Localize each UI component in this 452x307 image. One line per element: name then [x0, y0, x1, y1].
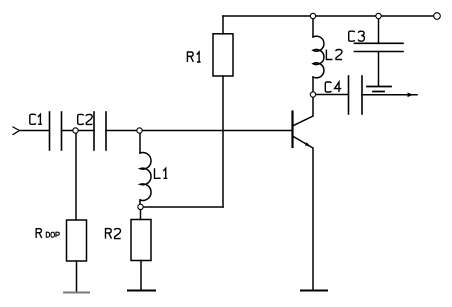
wire node3 down to R2: [140, 207, 142, 220]
inductor L2: [313, 36, 324, 78]
label R1: [187, 52, 193, 62]
input terminal chevron: [13, 127, 20, 135]
capacitor C3: [355, 43, 404, 51]
ground Rdop: [64, 292, 89, 294]
label C1: [30, 114, 36, 124]
label L2: [326, 50, 332, 60]
label Rdop: [36, 229, 42, 238]
output arrowhead: [408, 93, 414, 98]
ground C3: [367, 87, 391, 92]
label L1: [155, 168, 161, 178]
capacitor C1: [50, 112, 62, 150]
wire L2 to node4: [312, 77, 314, 95]
node F (L2-C4-collector junction): [310, 92, 315, 97]
node A (C1-C2 junction): [73, 128, 78, 133]
wire node3 to R1 bottom: [140, 206, 223, 208]
node D (rail-L2 junction): [310, 13, 315, 18]
capacitor C2: [94, 112, 106, 150]
label R2: [106, 229, 112, 239]
transistor VT1 collector: [293, 97, 314, 127]
wire R1 bottom down to node3 row: [222, 76, 224, 207]
ground R2: [128, 290, 155, 292]
top rail wire: [223, 15, 434, 17]
label C2: [78, 114, 84, 124]
wire rail down to L2: [312, 16, 314, 37]
ground emitter: [301, 290, 327, 292]
wire C3 to ground: [378, 52, 380, 87]
resistor R2: [131, 220, 151, 261]
node B (C2-L1 junction): [137, 128, 142, 133]
wire rail down to C3: [378, 16, 380, 43]
wire R1 top to rail: [222, 16, 224, 34]
transistor VT1 emitter arrowhead: [305, 142, 311, 147]
terminal (rail right end): [434, 13, 441, 20]
wire node2 down to L1: [139, 131, 141, 154]
wire L1 to node3: [139, 200, 141, 205]
wire C1 to C2: [62, 130, 95, 132]
capacitor C4: [349, 76, 363, 114]
wire Rdop to ground: [76, 261, 78, 292]
node E (rail-C3 junction): [376, 13, 381, 18]
wire R2 to ground: [140, 261, 142, 291]
wire node4 to C4: [313, 94, 349, 96]
label C4: [325, 82, 331, 92]
wire node1 down to Rdop: [75, 131, 77, 221]
transistor VT1 base bar: [291, 112, 293, 148]
inductor L1: [140, 153, 151, 201]
transistor VT1 emitter: [293, 136, 314, 290]
node C (L1-R2 junction): [138, 204, 143, 209]
wire input to C1: [20, 130, 50, 132]
resistor Rdop: [67, 220, 87, 261]
wire C2 to base: [106, 130, 293, 132]
label C3: [349, 31, 355, 41]
resistor R1: [213, 34, 233, 76]
wire C4 to output: [362, 94, 417, 96]
